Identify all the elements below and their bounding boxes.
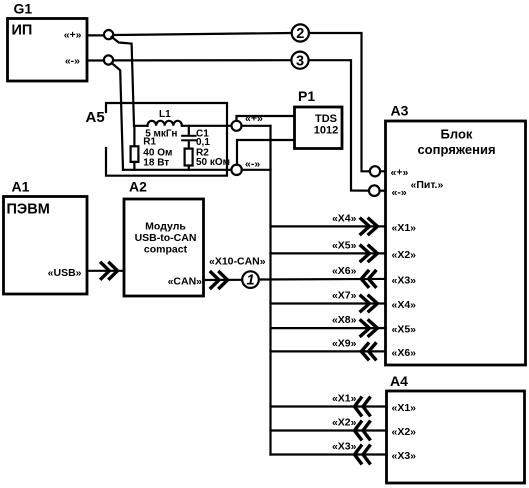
svg-text:«X2»: «X2»	[332, 417, 357, 429]
svg-text:18 Вт: 18 Вт	[143, 158, 169, 169]
node G1 «+» terminal	[104, 30, 113, 39]
wire bus to A3 X6	[271, 350, 386, 352]
wire filter «-» to P1	[237, 140, 295, 165]
wire circle 2 to A3 «+»	[310, 33, 370, 171]
svg-text:0,1: 0,1	[196, 137, 210, 148]
svg-text:50 кОм: 50 кОм	[196, 157, 230, 168]
interface unit A3	[386, 103, 526, 366]
svg-text:«X5»: «X5»	[332, 240, 357, 252]
svg-text:L1: L1	[159, 109, 171, 120]
svg-text:«X4»: «X4»	[392, 299, 417, 311]
svg-text:G1: G1	[14, 1, 33, 17]
arrow USB double chevron	[101, 263, 117, 279]
svg-text:«-»: «-»	[65, 55, 80, 67]
svg-text:«X1»: «X1»	[392, 402, 417, 414]
node filter «+» output	[232, 113, 263, 131]
arrow A4 row2 left	[355, 422, 370, 439]
svg-text:«X2»: «X2»	[392, 426, 417, 438]
node 1	[242, 271, 259, 288]
wire node to circle 3	[114, 59, 290, 61]
svg-text:ПЭВМ: ПЭВМ	[7, 202, 50, 218]
node 3	[291, 52, 308, 70]
svg-text:«X1»: «X1»	[332, 393, 357, 405]
svg-text:A5: A5	[86, 109, 105, 126]
svg-text:3: 3	[296, 53, 304, 69]
wire filter bottom rail	[123, 169, 232, 171]
svg-text:«X2»: «X2»	[392, 249, 417, 261]
svg-text:«-»: «-»	[245, 158, 260, 170]
arrow row4 right	[361, 296, 378, 311]
svg-text:1: 1	[246, 273, 254, 289]
svg-text:Модуль: Модуль	[145, 221, 186, 233]
wire filter «+» to P1	[237, 116, 295, 121]
unit A4	[387, 373, 525, 483]
arrow row3 left	[361, 271, 375, 286]
svg-text:«X4»: «X4»	[332, 213, 357, 225]
wire filter «+» to bus	[242, 125, 271, 127]
svg-text:«X9»: «X9»	[332, 338, 357, 350]
wire bus to A4 X1	[271, 405, 387, 407]
capacitor C1	[182, 126, 210, 149]
arrow A4 row3 left	[355, 446, 370, 463]
wire bus to A4 X3	[271, 453, 387, 455]
wire A1 USB to A2	[89, 270, 125, 272]
arrow CAN double chevron	[211, 272, 228, 288]
node G1 «-» terminal	[104, 55, 113, 64]
filter A5 bracket	[86, 103, 228, 176]
wire A2 CAN to node 1	[204, 279, 242, 281]
svg-text:«X7»: «X7»	[332, 290, 357, 302]
svg-text:Блок: Блок	[441, 127, 473, 142]
svg-text:«X10-CAN»: «X10-CAN»	[209, 256, 266, 268]
module A2	[124, 179, 204, 297]
wire filter «-» to bus	[242, 169, 271, 171]
svg-text:«X6»: «X6»	[392, 347, 417, 359]
node filter «-» output	[231, 158, 260, 175]
wire bus to A3 X5	[271, 327, 386, 329]
svg-text:«X3»: «X3»	[392, 275, 417, 287]
wire L1 to filter «+» output	[182, 125, 232, 127]
wire G1 «-» diagonal down	[112, 63, 123, 170]
svg-text:P1: P1	[298, 88, 315, 104]
svg-text:compact: compact	[144, 244, 188, 256]
arrow row5 right	[361, 321, 378, 336]
svg-text:«+»: «+»	[245, 113, 263, 125]
svg-text:«USB»: «USB»	[48, 267, 82, 279]
svg-text:сопряжения: сопряжения	[417, 142, 495, 157]
svg-text:«Пит.»: «Пит.»	[411, 179, 444, 191]
wire G1 «-» to terminal node	[87, 59, 105, 61]
svg-text:R1: R1	[143, 137, 156, 148]
arrow row2 right	[361, 246, 378, 261]
inductor L1	[145, 109, 182, 139]
svg-text:«X6»: «X6»	[332, 265, 357, 277]
computer A1	[4, 179, 88, 295]
svg-text:«X8»: «X8»	[332, 314, 357, 326]
svg-text:A1: A1	[12, 179, 30, 195]
wire bus to A3 X1	[271, 225, 386, 227]
wire bus to A3 X2	[271, 252, 386, 254]
svg-text:«X3»: «X3»	[332, 441, 357, 453]
arrow row6 left	[361, 344, 375, 359]
svg-text:A2: A2	[129, 179, 147, 195]
resistor R1	[131, 126, 173, 170]
svg-text:2: 2	[296, 26, 304, 42]
bus vertical	[269, 126, 271, 455]
svg-text:«X1»: «X1»	[392, 222, 417, 234]
arrow A4 row1 left	[355, 398, 370, 415]
arrow row1 right	[361, 219, 378, 234]
wire filter top node to L1	[134, 125, 148, 127]
svg-text:A4: A4	[390, 373, 408, 389]
node 2	[292, 24, 309, 42]
svg-text:ИП: ИП	[12, 23, 33, 39]
oscilloscope P1	[295, 88, 343, 149]
svg-text:TDS: TDS	[315, 113, 337, 125]
svg-text:«+»: «+»	[64, 29, 82, 41]
wire G1 «+» to terminal node	[87, 34, 105, 36]
wire bus to A4 X2	[271, 429, 387, 431]
svg-text:USB-to-CAN: USB-to-CAN	[135, 232, 197, 244]
wire circle 3 to A3 «-»	[310, 60, 369, 191]
wire node to circle 2	[114, 33, 290, 35]
svg-text:«-»: «-»	[392, 187, 407, 199]
resistor R2	[185, 148, 230, 170]
svg-text:1012: 1012	[314, 125, 338, 137]
node A3 «-» terminal	[369, 185, 386, 196]
power supply G1 box	[8, 1, 88, 82]
svg-text:A3: A3	[391, 103, 409, 119]
svg-text:«X5»: «X5»	[392, 324, 417, 336]
svg-text:«X3»: «X3»	[392, 450, 417, 462]
svg-text:«+»: «+»	[391, 167, 409, 179]
node A3 «+» terminal	[370, 166, 386, 176]
wire bus to A3 X4	[271, 302, 386, 304]
wire node 1 to A3 «X3»	[260, 278, 386, 281]
wire G1 «+» diagonal down	[112, 37, 134, 126]
svg-text:«CAN»: «CAN»	[168, 276, 203, 288]
